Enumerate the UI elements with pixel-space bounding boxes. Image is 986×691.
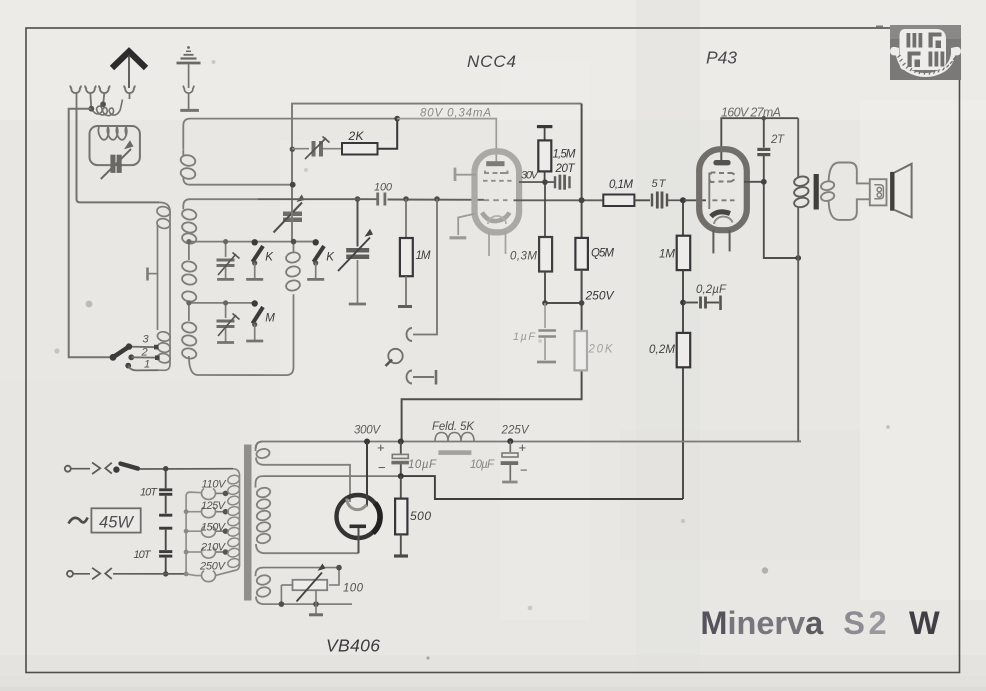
rectifier filament winding — [256, 442, 351, 503]
choke Feld 5K — [432, 421, 475, 455]
wire 160V rail — [721, 118, 798, 160]
capacitor 10T lower — [134, 549, 173, 577]
svg-text:M: M — [265, 313, 275, 325]
logo WRCM top right — [890, 25, 961, 80]
oscillator coil assembly left — [156, 202, 171, 370]
svg-text:30V: 30V — [521, 170, 540, 182]
tube P43 cathode — [711, 212, 733, 224]
tube P43 envelope — [699, 149, 747, 230]
tube P43 grids dashed — [709, 173, 734, 210]
svg-text:+: + — [519, 440, 527, 455]
tube P43 anode bar — [713, 160, 730, 165]
svg-text:0,2M: 0,2M — [649, 344, 675, 356]
node anode junction — [579, 197, 585, 203]
wire mains upper — [71, 468, 90, 470]
svg-text:10µF: 10µF — [408, 459, 437, 471]
svg-text:Minerva: Minerva — [700, 605, 824, 641]
resistor 0,3M — [510, 237, 552, 303]
logo top-left bars — [907, 33, 923, 48]
node row K left — [186, 239, 191, 244]
capacitor 20T — [555, 175, 570, 190]
wire NCC4 anode line — [514, 199, 604, 201]
selector stubs — [186, 512, 202, 576]
svg-text:20T: 20T — [555, 163, 576, 175]
tube NCC4 cathode lead — [450, 214, 475, 238]
resistor 1M (grid leak) — [659, 200, 690, 333]
main RF coil box — [181, 199, 293, 375]
wire antenna left drops — [69, 109, 159, 358]
node pot wiper gnd — [313, 601, 319, 607]
tube NCC4 screen lead — [455, 168, 476, 181]
svg-text:0,1M: 0,1M — [609, 179, 633, 191]
wire B+ divider right edge — [402, 104, 582, 441]
node 250V right — [579, 300, 585, 306]
svg-text:80V 0,34mA: 80V 0,34mA — [420, 108, 491, 120]
wire 80V rail — [292, 104, 582, 199]
antenna coupling loops — [91, 99, 122, 115]
wire NCC4 grid2 line — [519, 181, 554, 183]
svg-text:2: 2 — [869, 605, 887, 641]
switch mains — [113, 464, 233, 473]
antenna arrow — [112, 52, 146, 89]
svg-text:250V: 250V — [585, 289, 615, 303]
wire heater top lead — [263, 568, 339, 585]
node 1M junction — [403, 196, 409, 202]
trimmer capacitor 2K branch — [292, 137, 342, 160]
mains terminal upper — [65, 466, 71, 472]
main signal line — [258, 198, 484, 201]
wire grid return dark path — [401, 476, 683, 499]
svg-text:0,2µF: 0,2µF — [696, 284, 727, 296]
speaker voice coil — [874, 185, 883, 199]
node osc cap top — [355, 196, 361, 202]
variable capacitor C-ant arrow — [101, 140, 134, 179]
node bus joints — [184, 509, 189, 576]
switch M row2 — [246, 300, 275, 341]
svg-text:NCC4: NCC4 — [467, 52, 516, 71]
node trimmer K top — [223, 239, 228, 244]
title Minerva S 2 W — [700, 605, 940, 641]
wire grid into tube — [683, 199, 706, 201]
phone plug symbol — [386, 349, 403, 366]
resistor 1M — [398, 199, 431, 307]
svg-text:K: K — [265, 252, 274, 264]
resistor 20K — [575, 331, 614, 370]
resistor 1,5M — [537, 127, 576, 183]
svg-text:300V: 300V — [354, 425, 381, 437]
resistor 2K — [342, 119, 397, 155]
tuning capacitor C1 (main) — [274, 194, 305, 232]
tube NCC4 grids dashed — [483, 171, 512, 201]
tube VB406 heavy arc — [373, 503, 380, 533]
tuning capacitor C2 (oscillator) — [338, 199, 373, 304]
capacitor 10uF first — [377, 439, 437, 477]
speaker horn — [895, 164, 912, 218]
svg-text:500: 500 — [410, 509, 431, 523]
trimmer capacitor row M — [217, 303, 240, 343]
tube VB406 filament cup — [347, 499, 367, 510]
tube VB406 cathode bar — [350, 525, 367, 554]
svg-text:W: W — [909, 605, 940, 641]
svg-text:3: 3 — [143, 334, 150, 346]
resistor 0,1M — [603, 179, 650, 206]
switch K2 — [294, 239, 336, 279]
speaker magnet bar — [890, 172, 894, 211]
wire grid cap to tube — [397, 119, 496, 162]
node pot top — [336, 565, 342, 571]
coil L1 petals — [98, 127, 126, 140]
svg-text:+: + — [377, 440, 385, 455]
svg-text:2K: 2K — [348, 129, 365, 143]
wire HT top lead — [263, 475, 401, 477]
transformer output secondary — [820, 163, 870, 220]
logo bottom-left glyph — [908, 52, 921, 68]
capacitor 2T — [757, 116, 785, 182]
wave switch lever — [110, 343, 133, 360]
tap labels — [199, 479, 227, 573]
pickup jack hook lower — [407, 370, 436, 385]
svg-text:1M: 1M — [659, 249, 675, 261]
row M wire — [189, 302, 257, 304]
tube P43 pins — [713, 230, 729, 253]
svg-text:150V: 150V — [201, 521, 227, 533]
node tuning cap C1 bottom — [291, 239, 297, 245]
variable capacitor C-ant plates — [110, 155, 121, 173]
logo top-right glyph — [929, 33, 942, 49]
resistor 500 — [394, 476, 431, 556]
svg-text:−: − — [378, 460, 386, 475]
label ~ mains — [69, 518, 88, 524]
node row M left — [186, 300, 191, 305]
transformer core — [244, 445, 252, 601]
node primary bottom — [795, 255, 801, 261]
capacitor 10T upper — [140, 466, 172, 514]
resistor Q5M — [575, 238, 614, 303]
node P43 grid junction — [680, 197, 686, 203]
RF transformer primary top box — [180, 119, 293, 185]
tube VB406 envelope — [337, 495, 380, 538]
svg-text:210V: 210V — [200, 542, 227, 554]
transformer output core — [814, 174, 819, 210]
ground symbol top — [177, 46, 201, 110]
svg-text:1,5M: 1,5M — [553, 149, 576, 161]
oscillator coil tap terminal — [148, 268, 158, 281]
tube NCC4 anode bar — [486, 161, 504, 166]
tube NCC4 heater pins — [489, 231, 506, 256]
wiper ground — [309, 590, 323, 615]
svg-text:100: 100 — [343, 583, 364, 595]
svg-text:1M: 1M — [416, 250, 431, 262]
antenna socket cups — [70, 86, 134, 93]
logo bottom-right bars — [929, 52, 945, 67]
svg-text:110V: 110V — [202, 479, 228, 491]
tube NCC4 envelope — [475, 151, 520, 232]
voltage selector bus — [186, 492, 202, 574]
potentiometer 100 — [281, 564, 363, 605]
transformer primary winding — [216, 469, 240, 576]
tube VB406 anode lead — [363, 439, 371, 508]
node pot left — [279, 601, 285, 607]
svg-text:10T: 10T — [140, 487, 158, 499]
selector socket rings — [202, 489, 216, 582]
oscillator section coil right — [285, 242, 301, 292]
wire 0,3M drop — [544, 182, 546, 237]
svg-text:P43: P43 — [706, 48, 737, 68]
node grid-cap junction — [394, 116, 400, 122]
wave switch contacts 3 2 1 — [125, 334, 159, 371]
antenna tuned circuit box — [90, 126, 140, 165]
resistor 0,2M — [649, 333, 690, 499]
svg-text:Feld. 5K: Feld. 5K — [432, 421, 475, 433]
node coil top junction — [290, 147, 295, 152]
svg-text:K: K — [326, 252, 335, 264]
wire top coil to grid cap line — [245, 118, 397, 120]
speaker frame box — [870, 179, 887, 205]
svg-text:Q5M: Q5M — [591, 248, 614, 260]
svg-text:2T: 2T — [770, 134, 785, 146]
svg-text:S: S — [843, 605, 865, 641]
node trimmer M top — [223, 300, 228, 305]
wire 250V row — [545, 302, 582, 304]
node jack junction — [434, 196, 440, 202]
capacitor 1uF — [513, 303, 556, 362]
tube NCC4 cathode arc — [482, 213, 510, 222]
node anode 2T junction — [761, 179, 767, 185]
svg-text:−: − — [520, 463, 528, 478]
svg-text:VB406: VB406 — [326, 636, 380, 656]
wire mains lower — [73, 568, 186, 580]
svg-text:0,3M: 0,3M — [510, 251, 537, 263]
break connector upper — [92, 463, 112, 475]
capacitor 10uF second — [470, 438, 528, 482]
node grid junction — [542, 179, 548, 185]
transformer output primary — [793, 118, 809, 441]
trimmer capacitor row K — [217, 242, 240, 280]
node 250V left — [542, 300, 548, 306]
svg-text:20K: 20K — [588, 344, 614, 356]
svg-text:1µF: 1µF — [513, 331, 536, 343]
mains terminal lower — [67, 571, 73, 577]
svg-text:10µF: 10µF — [470, 459, 495, 471]
svg-text:1: 1 — [144, 359, 150, 371]
antenna socket stems — [77, 94, 130, 109]
tube NCC4 filament bump — [488, 216, 506, 224]
node antenna tap 1 — [88, 106, 94, 112]
wire left edge drop — [291, 149, 293, 241]
capacitor mid plates — [159, 515, 172, 550]
svg-text:10T: 10T — [134, 549, 152, 561]
wire to pickup jack — [413, 199, 437, 335]
node coil bottom junction — [290, 182, 296, 188]
svg-text:250V: 250V — [199, 561, 227, 573]
pickup jack hook upper — [407, 328, 412, 341]
svg-text:125V: 125V — [201, 500, 227, 512]
row K wire — [189, 241, 316, 243]
heater winding bottom — [256, 568, 353, 605]
wire P43 anode line — [744, 182, 798, 258]
node antenna tap 2 — [100, 101, 106, 107]
capacitor 0,2uF — [683, 284, 727, 310]
svg-text:225V: 225V — [501, 425, 530, 437]
logo banner — [890, 47, 961, 77]
wire 300V line — [256, 441, 801, 448]
capacitor 5T — [652, 178, 684, 209]
node HT minus junction — [398, 473, 404, 479]
switch K row1 — [246, 239, 274, 279]
capacitor 100 — [374, 182, 393, 206]
box 45W — [91, 508, 140, 532]
svg-text:45W: 45W — [99, 514, 134, 532]
tap contact dots — [216, 491, 229, 555]
node 0,2uF junction — [680, 300, 686, 306]
svg-text:5T: 5T — [652, 178, 667, 190]
HT winding — [256, 476, 359, 553]
svg-text:100: 100 — [374, 182, 393, 194]
